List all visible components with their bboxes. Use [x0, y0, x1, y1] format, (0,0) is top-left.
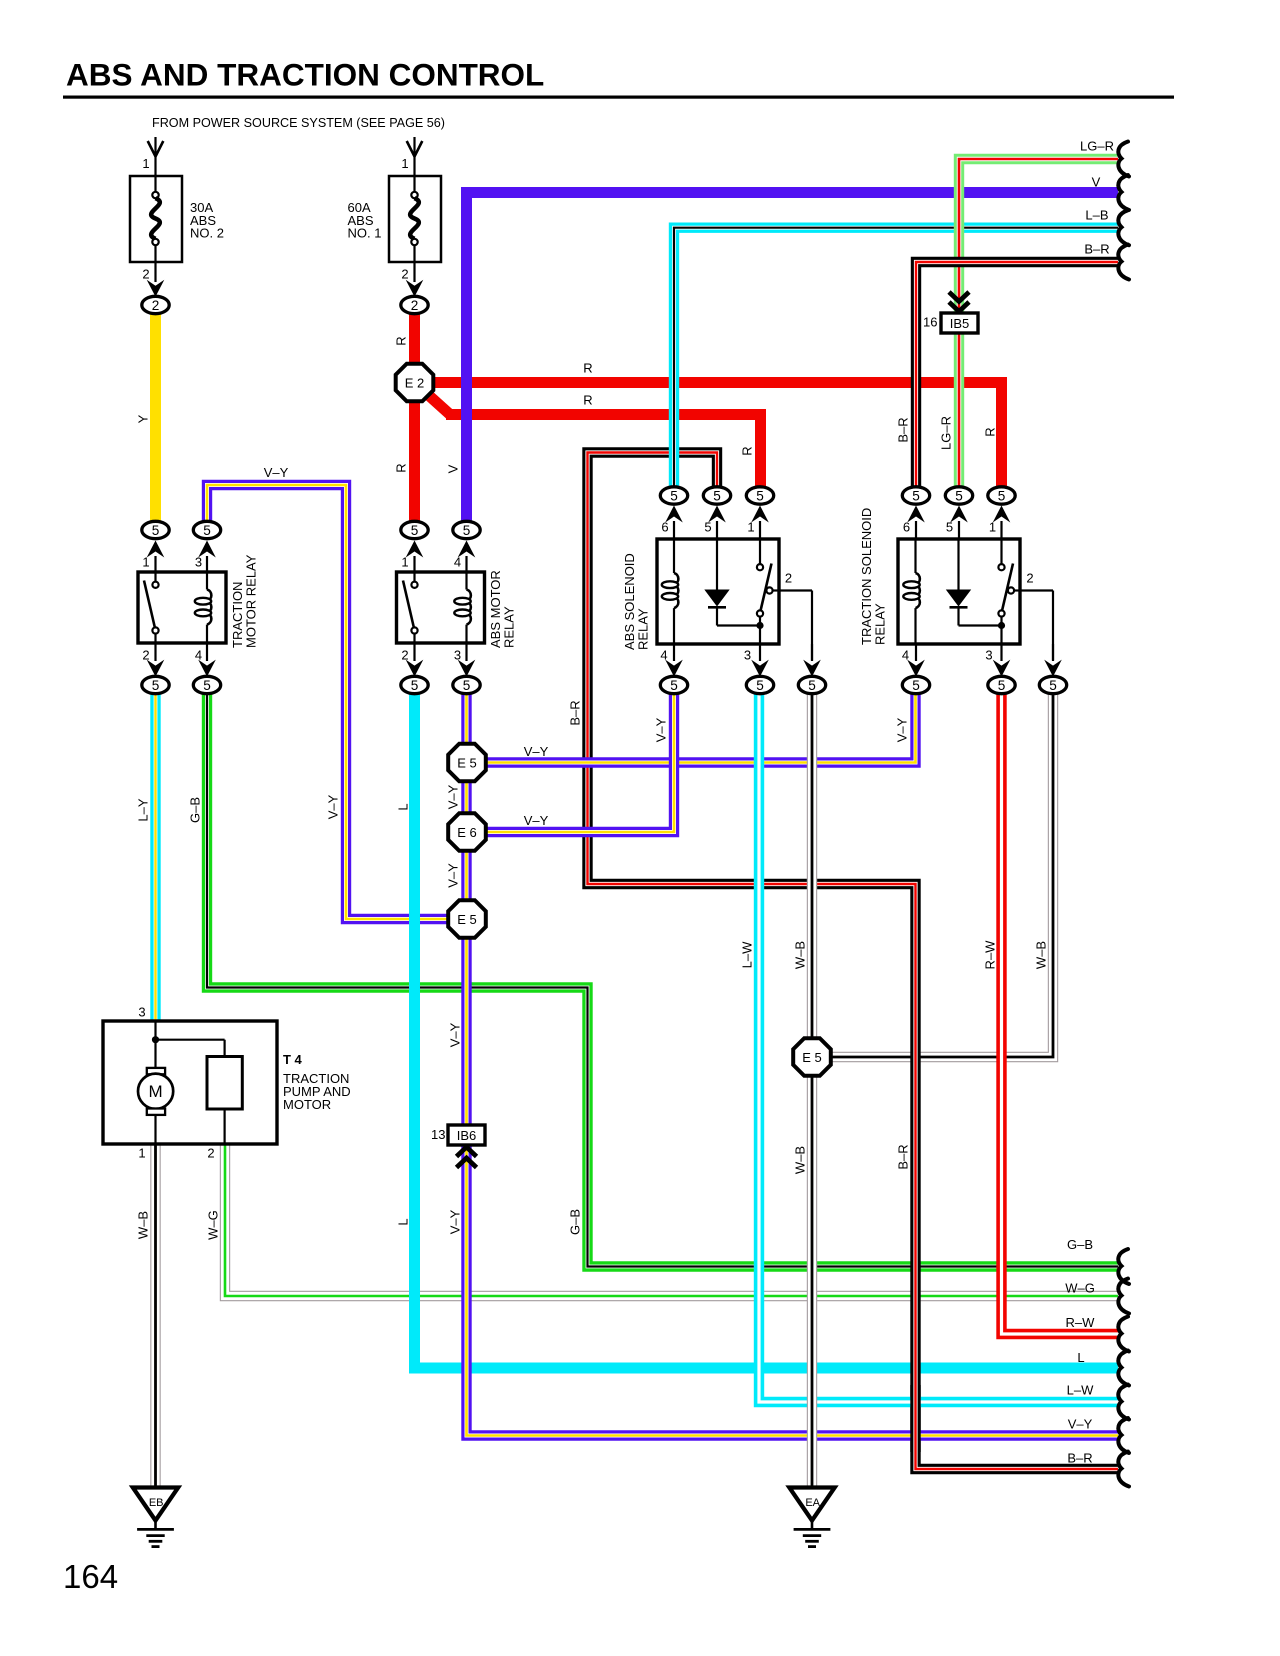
svg-text:V–Y: V–Y — [895, 717, 910, 742]
svg-text:V–Y: V–Y — [446, 784, 461, 809]
svg-text:1: 1 — [401, 555, 408, 570]
svg-text:B–R: B–R — [896, 1144, 911, 1169]
svg-text:V–Y: V–Y — [326, 794, 341, 819]
svg-text:W–B: W–B — [793, 941, 808, 969]
svg-text:V–Y: V–Y — [448, 1209, 463, 1234]
svg-text:W–G: W–G — [206, 1210, 221, 1240]
svg-text:13: 13 — [431, 1127, 445, 1142]
svg-text:V–Y: V–Y — [524, 813, 549, 828]
svg-text:5: 5 — [670, 678, 678, 693]
svg-text:E 5: E 5 — [802, 1050, 822, 1065]
svg-text:5: 5 — [704, 520, 711, 535]
svg-text:V–Y: V–Y — [524, 744, 549, 759]
svg-text:16: 16 — [923, 315, 937, 330]
svg-text:L: L — [396, 1218, 411, 1225]
svg-text:2: 2 — [1026, 571, 1033, 586]
svg-text:NO. 1: NO. 1 — [348, 226, 382, 241]
svg-text:2: 2 — [785, 571, 792, 586]
svg-text:5: 5 — [463, 678, 471, 693]
svg-text:V–Y: V–Y — [264, 465, 289, 480]
svg-text:1: 1 — [138, 1146, 145, 1161]
svg-text:E 2: E 2 — [405, 375, 425, 390]
svg-text:R–W: R–W — [983, 940, 998, 970]
svg-text:V–Y: V–Y — [446, 863, 461, 888]
svg-text:IB6: IB6 — [457, 1128, 477, 1143]
svg-text:E 6: E 6 — [457, 825, 477, 840]
svg-text:4: 4 — [902, 648, 909, 663]
svg-text:2: 2 — [401, 648, 408, 663]
svg-text:2: 2 — [142, 267, 149, 282]
svg-text:2: 2 — [142, 648, 149, 663]
svg-text:5: 5 — [946, 520, 953, 535]
svg-text:T 4: T 4 — [283, 1052, 303, 1067]
svg-text:5: 5 — [152, 523, 160, 538]
svg-text:2: 2 — [207, 1146, 214, 1161]
svg-text:V: V — [1092, 175, 1101, 190]
svg-text:2: 2 — [411, 298, 419, 313]
svg-text:EA: EA — [805, 1497, 820, 1509]
svg-text:L: L — [396, 803, 411, 810]
svg-text:E 5: E 5 — [457, 912, 477, 927]
svg-text:LG–R: LG–R — [939, 416, 954, 450]
svg-text:5: 5 — [463, 523, 471, 538]
svg-text:R: R — [394, 336, 409, 345]
svg-text:3: 3 — [744, 648, 751, 663]
svg-text:G–B: G–B — [568, 1209, 583, 1235]
svg-text:M: M — [149, 1082, 163, 1101]
svg-text:L–B: L–B — [1085, 208, 1108, 223]
svg-text:5: 5 — [912, 678, 920, 693]
svg-text:6: 6 — [903, 520, 910, 535]
svg-text:1: 1 — [142, 156, 149, 171]
svg-text:R: R — [583, 361, 592, 376]
svg-text:L: L — [1077, 1350, 1084, 1365]
svg-text:L–W: L–W — [740, 941, 755, 968]
svg-text:E 5: E 5 — [457, 755, 477, 770]
svg-text:W–G: W–G — [1065, 1280, 1095, 1295]
svg-text:B–R: B–R — [1084, 242, 1109, 257]
svg-text:W–B: W–B — [136, 1211, 151, 1239]
svg-text:IB5: IB5 — [950, 316, 970, 331]
svg-text:5: 5 — [203, 678, 211, 693]
svg-text:R: R — [394, 463, 409, 472]
svg-text:2: 2 — [152, 298, 160, 313]
svg-text:5: 5 — [411, 523, 419, 538]
svg-text:3: 3 — [985, 648, 992, 663]
svg-text:L–Y: L–Y — [136, 798, 151, 821]
svg-text:3: 3 — [138, 1005, 145, 1020]
svg-text:V–Y: V–Y — [1068, 1417, 1093, 1432]
svg-text:G–B: G–B — [188, 797, 203, 823]
svg-text:5: 5 — [411, 678, 419, 693]
svg-text:R: R — [583, 393, 592, 408]
svg-text:5: 5 — [756, 488, 764, 503]
svg-text:2: 2 — [401, 267, 408, 282]
svg-text:6: 6 — [661, 520, 668, 535]
svg-text:ABS AND TRACTION CONTROL: ABS AND TRACTION CONTROL — [66, 57, 544, 93]
svg-text:TRACTION SOLENOIDRELAY: TRACTION SOLENOIDRELAY — [859, 508, 887, 645]
svg-text:W–B: W–B — [1034, 941, 1049, 969]
svg-text:G–B: G–B — [1067, 1237, 1093, 1252]
svg-text:L–W: L–W — [1067, 1383, 1094, 1398]
svg-text:5: 5 — [998, 488, 1006, 503]
svg-text:ABS SOLENOIDRELAY: ABS SOLENOIDRELAY — [622, 553, 650, 650]
svg-text:164: 164 — [63, 1558, 118, 1595]
svg-text:B–R: B–R — [568, 700, 583, 725]
svg-text:3: 3 — [195, 555, 202, 570]
svg-text:1: 1 — [989, 520, 996, 535]
svg-text:4: 4 — [195, 648, 202, 663]
svg-text:R: R — [740, 446, 755, 455]
svg-text:5: 5 — [808, 678, 816, 693]
svg-text:1: 1 — [142, 555, 149, 570]
svg-text:R–W: R–W — [1066, 1315, 1096, 1330]
svg-text:B–R: B–R — [896, 417, 911, 442]
svg-text:5: 5 — [152, 678, 160, 693]
svg-text:1: 1 — [401, 156, 408, 171]
svg-text:W–B: W–B — [793, 1146, 808, 1174]
svg-text:5: 5 — [955, 488, 963, 503]
svg-text:R: R — [983, 427, 998, 436]
svg-text:EB: EB — [149, 1497, 164, 1509]
svg-text:ABS MOTORRELAY: ABS MOTORRELAY — [488, 570, 516, 648]
svg-text:5: 5 — [912, 488, 920, 503]
svg-text:4: 4 — [454, 555, 461, 570]
svg-text:V–Y: V–Y — [448, 1022, 463, 1047]
svg-text:MOTOR: MOTOR — [283, 1097, 331, 1112]
svg-text:3: 3 — [454, 648, 461, 663]
svg-text:V–Y: V–Y — [654, 717, 669, 742]
svg-text:NO. 2: NO. 2 — [190, 226, 224, 241]
svg-text:5: 5 — [1049, 678, 1057, 693]
svg-text:Y: Y — [136, 414, 151, 423]
svg-text:5: 5 — [998, 678, 1006, 693]
svg-text:FROM POWER SOURCE SYSTEM (SEE: FROM POWER SOURCE SYSTEM (SEE PAGE 56) — [152, 116, 445, 130]
svg-text:V: V — [446, 464, 461, 473]
svg-text:B–R: B–R — [1067, 1450, 1092, 1465]
svg-text:5: 5 — [203, 523, 211, 538]
svg-text:5: 5 — [670, 488, 678, 503]
svg-text:5: 5 — [713, 488, 721, 503]
svg-text:1: 1 — [747, 520, 754, 535]
svg-text:LG–R: LG–R — [1080, 139, 1114, 154]
svg-text:TRACTIONMOTOR RELAY: TRACTIONMOTOR RELAY — [230, 554, 258, 648]
svg-text:4: 4 — [660, 648, 667, 663]
svg-text:5: 5 — [756, 678, 764, 693]
